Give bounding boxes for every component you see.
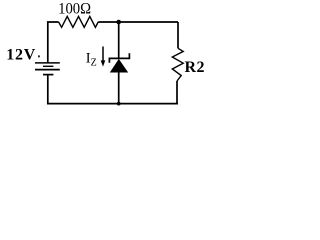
- svg-text:R2: R2: [185, 59, 206, 76]
- battery V1 plate long top: [35, 62, 60, 64]
- zener D1 cathode bar with wings: [109, 53, 129, 63]
- current arrow Iz head: [101, 60, 106, 66]
- wire top (resistor to right corner): [98, 21, 178, 23]
- battery V1 plate short upper: [43, 65, 53, 67]
- polarity mark after 12V: [38, 55, 40, 57]
- node junction dot top: [116, 20, 121, 25]
- battery V1 plate long lower: [35, 69, 60, 71]
- battery V1 plate short bottom: [43, 74, 53, 76]
- wire middle branch upper (node to zener): [118, 22, 120, 58]
- svg-text:12V: 12V: [6, 47, 36, 64]
- resistor R1 100ohm zigzag: [59, 16, 99, 27]
- wire right branch top: [177, 22, 179, 48]
- wire top-left corner + left stem: [48, 22, 59, 63]
- wire right branch bottom: [176, 81, 178, 104]
- wire middle branch lower (zener to bottom rail): [118, 72, 120, 104]
- node junction dot bottom: [117, 102, 121, 106]
- svg-text:100Ω: 100Ω: [58, 1, 91, 18]
- resistor R2 zigzag: [172, 48, 183, 81]
- zener D1 triangle (anode, pointing up): [110, 59, 128, 73]
- current arrow Iz: [102, 47, 104, 62]
- wire battery bottom stem + bottom rail: [48, 75, 178, 104]
